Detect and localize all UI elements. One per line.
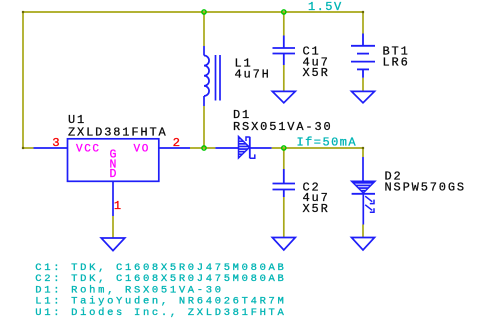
svg-text:1: 1 (114, 199, 121, 213)
wire D1 cathode to D2 corner (272, 148, 363, 157)
U1 pin 2 lead (159, 147, 190, 149)
wire inductor column upper (203, 12, 205, 46)
wire pin3 stub (23, 147, 34, 149)
wire BT1 to ground (362, 78, 364, 92)
svg-text:4u7H: 4u7H (235, 67, 271, 81)
svg-text:D: D (110, 168, 117, 181)
svg-text:If=50mA: If=50mA (297, 136, 358, 150)
op-amp U1 box ZXLD381FHTA (68, 139, 159, 182)
wire top rail + left drop + BT1 feed (23, 12, 363, 148)
ground (C2) (272, 238, 295, 251)
svg-text:C1: TDK, C1608X5R0J475M080AB: C1: TDK, C1608X5R0J475M080AB (35, 262, 286, 274)
svg-text:VCC: VCC (76, 144, 101, 156)
LED D2 NSPW570GS (352, 157, 375, 225)
svg-text:LR6: LR6 (383, 55, 410, 69)
wire U1 pin1 to ground (112, 216, 114, 238)
svg-text:D1: Rohm, RSX051VA-30: D1: Rohm, RSX051VA-30 (35, 284, 223, 296)
svg-text:L1: TaiyoYuden, NR64026T4R7M: L1: TaiyoYuden, NR64026T4R7M (35, 296, 286, 308)
node junction (283.8,148) (282, 146, 286, 150)
svg-text:1.5V: 1.5V (308, 0, 343, 14)
node junction (204,12) (202, 10, 206, 14)
svg-text:ZXLD381FHTA: ZXLD381FHTA (68, 126, 168, 140)
wire D2 to ground (362, 225, 364, 238)
node junction (283.8,12) (282, 10, 286, 14)
ground (U1 pin1) (101, 238, 125, 251)
svg-text:VO: VO (134, 144, 150, 156)
ground (BT1) (352, 91, 375, 102)
U1 pin 1 lead (112, 181, 114, 216)
capacitor C1 (273, 36, 296, 66)
battery BT1 (351, 34, 375, 78)
wire inductor column lower (203, 106, 205, 148)
pin label GND (vertical) (110, 148, 117, 181)
wire C1 top stub (283, 12, 285, 36)
svg-text:RSX051VA-30: RSX051VA-30 (233, 120, 333, 134)
wire U1 pin2 to D1 row (190, 147, 215, 149)
svg-text:2: 2 (173, 136, 180, 150)
svg-text:X5R: X5R (303, 202, 330, 216)
wire corner dots (22, 11, 364, 149)
svg-text:3: 3 (52, 136, 59, 150)
wire C2 to ground (283, 197, 285, 238)
svg-text:NSPW570GS: NSPW570GS (385, 181, 466, 195)
wire C2 top (283, 148, 285, 169)
ground (C1) (272, 91, 295, 102)
U1 pin 3 lead (34, 147, 68, 149)
svg-text:C2: TDK, C1608X5R0J475M080AB: C2: TDK, C1608X5R0J475M080AB (35, 273, 286, 285)
wire C1 to ground (283, 65, 285, 92)
svg-text:U1: Diodes Inc., ZXLD381FHTA: U1: Diodes Inc., ZXLD381FHTA (35, 307, 286, 319)
node junction (204,148) (202, 146, 206, 150)
ground (D2) (352, 238, 375, 251)
svg-text:X5R: X5R (303, 66, 330, 80)
inductor L1 (204, 46, 220, 106)
capacitor C2 (273, 169, 296, 197)
diode D1 RSX051VA-30 (schottky) (215, 137, 271, 159)
